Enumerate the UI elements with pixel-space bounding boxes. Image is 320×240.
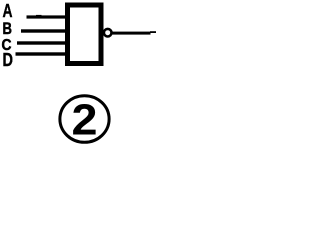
wire input D [16,52,68,55]
wire output [113,32,151,35]
wire input B [21,29,68,32]
svg-text:D: D [3,49,14,70]
inverting output bubble [104,29,112,37]
wire input C [17,41,68,44]
wire output thin end [150,31,156,33]
svg-text:A: A [3,1,13,21]
wire input A scan bump [36,15,42,17]
4-input NAND gate U1 body [68,5,102,64]
callout circle [60,96,109,143]
svg-text:B: B [3,20,13,38]
svg-text:2: 2 [72,96,98,145]
wire input A [27,15,68,18]
